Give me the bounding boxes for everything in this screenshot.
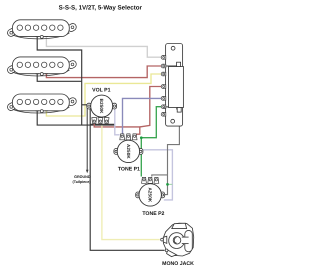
svg-text:TONE P2: TONE P2 — [142, 211, 164, 217]
svg-text:A250K: A250K — [148, 187, 153, 202]
svg-text:MONO JACK: MONO JACK — [162, 261, 194, 267]
svg-text:S-S-S, 1V/2T, 5-Way Selector: S-S-S, 1V/2T, 5-Way Selector — [59, 4, 143, 11]
svg-text:(Tailpiece): (Tailpiece) — [73, 180, 92, 184]
svg-text:B250K: B250K — [99, 99, 104, 114]
svg-text:TONE P1: TONE P1 — [118, 166, 140, 172]
svg-text:GROUND: GROUND — [74, 175, 91, 179]
svg-text:A250K: A250K — [126, 144, 131, 159]
svg-text:VOL P1: VOL P1 — [92, 88, 110, 94]
